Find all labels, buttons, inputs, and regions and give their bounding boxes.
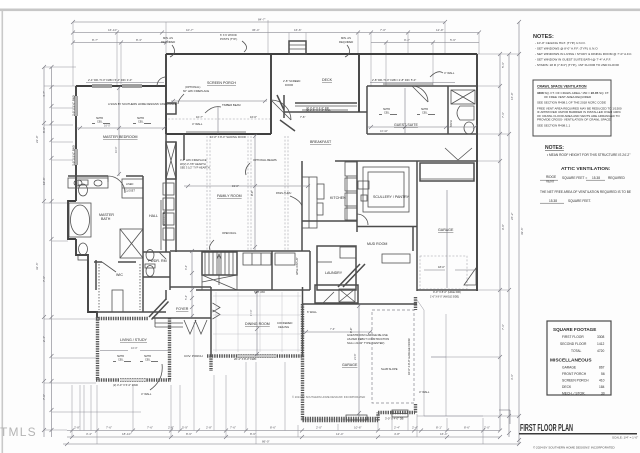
svg-text:MIN. AS: MIN. AS — [341, 36, 351, 40]
svg-text:36'-4": 36'-4" — [252, 28, 260, 32]
wall: breakfast west jog — [283, 95, 285, 118]
door: front entry triangles — [184, 320, 207, 334]
ext vertical bottom — [71, 385, 73, 437]
svg-text:RIDGE: RIDGE — [546, 175, 556, 179]
scullery ref box — [358, 181, 369, 189]
svg-text:5'-4": 5'-4" — [185, 295, 188, 300]
svg-text:15.38: 15.38 — [592, 176, 600, 180]
svg-text:18'-10": 18'-10" — [122, 432, 131, 436]
garage door dashed right — [420, 256, 467, 289]
fireplace box — [166, 142, 176, 179]
svg-text:CEIL: CEIL — [145, 359, 151, 362]
svg-text:7'-6": 7'-6" — [147, 426, 153, 430]
wall: top exterior porch/deck/guest — [166, 53, 477, 55]
svg-text:7'-6": 7'-6" — [106, 426, 112, 430]
svg-text:10'-6": 10'-6" — [354, 426, 362, 430]
svg-text:7'-6": 7'-6" — [501, 324, 505, 330]
svg-text:CRAWL SPACE VENTILATION: CRAWL SPACE VENTILATION — [537, 85, 587, 89]
svg-text:2'-8" SCREEN: 2'-8" SCREEN — [283, 79, 300, 83]
wall: powder east — [169, 252, 171, 290]
svg-text:BATH: BATH — [449, 120, 453, 127]
svg-text:8'-6": 8'-6" — [42, 127, 46, 133]
door: dining entry triangles — [213, 303, 221, 319]
svg-text:SEE SECTION R408.1.1: SEE SECTION R408.1.1 — [537, 123, 571, 127]
svg-text:26'-4" X 8'-0" FWD: 26'-4" X 8'-0" FWD — [234, 357, 256, 361]
svg-text:8'-3": 8'-3" — [136, 38, 142, 42]
svg-text:6' WALL: 6' WALL — [307, 310, 317, 314]
svg-text:W/(2) 3'-7/8" HEARTH: W/(2) 3'-7/8" HEARTH — [180, 162, 206, 166]
entry steps — [155, 322, 183, 324]
key drop cabinets — [243, 253, 271, 265]
svg-text:60" LWC FIREPLACE: 60" LWC FIREPLACE — [183, 89, 209, 93]
svg-text:4'-0" LWC FIREPLACE: 4'-0" LWC FIREPLACE — [180, 158, 207, 162]
svg-text:4" WALL: 4" WALL — [444, 71, 455, 75]
svg-text:© 2024 BY SOUTHERN HOME DESIGN: © 2024 BY SOUTHERN HOME DESIGNS' INCORPO… — [533, 446, 616, 450]
svg-text:CEIL: CEIL — [118, 359, 124, 362]
svg-text:16'-6": 16'-6" — [250, 115, 257, 119]
interior dim marks family — [184, 185, 310, 187]
svg-text:POSTS (TYP.): POSTS (TYP.) — [220, 37, 237, 41]
right dim col A — [499, 54, 501, 430]
svg-text:MECH. / STOR.: MECH. / STOR. — [562, 392, 585, 396]
interior dim line foyer — [191, 252, 193, 318]
svg-text:BATH: BATH — [101, 217, 111, 221]
interior dim porch — [217, 107, 219, 134]
scan left grey edge — [2, 11, 4, 453]
svg-text:DECK: DECK — [322, 78, 333, 82]
svg-text:LINEN: LINEN — [126, 183, 134, 186]
svg-text:REQUIRED: REQUIRED — [339, 40, 353, 44]
wall: dining east — [302, 287, 304, 356]
svg-text:GARAGE: GARAGE — [342, 363, 358, 367]
svg-text:3'-4": 3'-4" — [86, 432, 92, 436]
wall: powder south — [143, 276, 170, 278]
wall: mech/stor — [315, 285, 358, 303]
bottom dim row 3 — [63, 443, 519, 445]
svg-text:TMLS: TMLS — [0, 425, 37, 439]
svg-text:PWDR. RM: PWDR. RM — [148, 259, 167, 263]
wall: east exterior upper — [476, 54, 478, 291]
svg-text:7'-6": 7'-6" — [501, 112, 505, 118]
wall: wardrobe inner — [160, 200, 162, 250]
square footage box — [547, 321, 611, 396]
wall: kitchen south — [302, 220, 357, 222]
fan living 1 — [113, 355, 131, 362]
ext horizontal right — [477, 53, 519, 55]
svg-text:9'-0": 9'-0" — [250, 191, 254, 196]
fan MB 2 — [133, 117, 151, 124]
interior dim dining — [256, 290, 258, 356]
svg-text:SQUARE FOOTAGE: SQUARE FOOTAGE — [553, 327, 596, 332]
wall: porch front — [303, 419, 379, 422]
svg-text:3'-6": 3'-6" — [510, 374, 514, 380]
svg-text:SCREEN PORCH: SCREEN PORCH — [207, 81, 236, 85]
door arc: scullery to mud — [357, 214, 368, 225]
bracket dim bottom right — [499, 409, 510, 411]
svg-text:84'-7": 84'-7" — [258, 18, 266, 22]
wall: stair hall south — [196, 289, 310, 291]
svg-text:TOTAL: TOTAL — [571, 349, 581, 353]
svg-text:22'-0": 22'-0" — [35, 135, 39, 143]
wall: living/study north — [96, 317, 148, 320]
wall: step up to porch — [165, 54, 167, 86]
svg-text:LAUNDRY: LAUNDRY — [325, 271, 343, 275]
svg-text:8'-7": 8'-7" — [92, 38, 98, 42]
svg-text:PROVIDE CROSS- VENTILATION OF: PROVIDE CROSS- VENTILATION OF CRAWL SPAC… — [537, 118, 612, 122]
fixture: powder toilet — [146, 266, 154, 277]
svg-text:6' X 6' WOOD: 6' X 6' WOOD — [220, 33, 237, 37]
wall: garage east upper — [414, 297, 417, 310]
svg-text:5'-9": 5'-9" — [182, 426, 188, 430]
svg-text:10'-0": 10'-0" — [114, 146, 118, 153]
svg-text:AS-PER REBUT CONSTRUCTION: AS-PER REBUT CONSTRUCTION — [347, 337, 389, 341]
garage person door — [464, 268, 476, 285]
fan guest 2 — [417, 108, 435, 115]
svg-text:16'-4": 16'-4" — [440, 432, 448, 436]
svg-text:SLAB SLOPE: SLAB SLOPE — [381, 367, 398, 371]
svg-text:3'-0" X 4'-0" DB: 3'-0" X 4'-0" DB — [385, 417, 404, 421]
wardrobe shelves — [163, 183, 174, 195]
fixture: bath vanity — [68, 178, 108, 188]
wall: kitchen north / y161 — [335, 160, 477, 162]
svg-text:THE NET FREE AREA OF VENTILATI: THE NET FREE AREA OF VENTILATION REQUIRE… — [540, 190, 631, 194]
svg-text:2'-8": 2'-8" — [74, 426, 80, 430]
svg-text:2'-8": 2'-8" — [206, 426, 212, 430]
garage south window — [346, 415, 367, 420]
svg-text:COV. PORCH: COV. PORCH — [184, 354, 203, 358]
svg-text:39'-6": 39'-6" — [520, 227, 524, 235]
svg-text:8'-0": 8'-0" — [349, 328, 353, 333]
svg-text:7'-0": 7'-0" — [380, 28, 386, 32]
svg-text:- STAIRS: 18 R (7 3/4") (TYP: - STAIRS: 18 R (7 3/4") (TYP.), 1ST FLOO… — [535, 63, 620, 67]
svg-text:NOTES:: NOTES: — [533, 34, 554, 40]
steps SE — [392, 410, 408, 417]
wall: deck east — [358, 54, 360, 112]
wall: deck south rail — [295, 102, 357, 104]
wall: guest suite north inner — [367, 85, 477, 87]
svg-text:7'-6": 7'-6" — [42, 276, 46, 282]
svg-text:15.38: 15.38 — [549, 199, 557, 203]
svg-text:- 10'-0" CEILING HGT. (TYP.): - 10'-0" CEILING HGT. (TYP.) U.N.O. — [535, 41, 586, 45]
svg-text:3'-0" X 5'-0" FWD: 3'-0" X 5'-0" FWD — [72, 95, 76, 116]
door: screen door diag — [277, 95, 284, 110]
svg-text:9'-0" X 8'-0" (HIGH DR): 9'-0" X 8'-0" (HIGH DR) — [433, 290, 461, 294]
svg-text:19'-0": 19'-0" — [232, 184, 239, 188]
svg-text:3308: 3308 — [597, 335, 605, 339]
wall: guest bath west — [447, 86, 449, 134]
svg-text:SGA x 21/32" TYPE (CENTER): SGA x 21/32" TYPE (CENTER) — [347, 341, 384, 345]
svg-text:OPTIONAL BEAMS: OPTIONAL BEAMS — [253, 158, 277, 162]
interior dim mb — [76, 127, 166, 129]
svg-text:DOOR: DOOR — [285, 83, 293, 87]
svg-text:OF FREE VENT AREA REQUIRED: OF FREE VENT AREA REQUIRED — [544, 95, 592, 99]
svg-text:- SET WINDOW IN GUEST SUITE B: - SET WINDOW IN GUEST SUITE BATH @ 7'-4"… — [535, 58, 611, 62]
title: FIRST FLOOR PLAN — [519, 423, 638, 450]
kitchen counter boxes — [302, 177, 317, 228]
coffered ceiling grid — [213, 292, 301, 352]
fan guest 1 — [379, 108, 397, 115]
wall: master bedroom west — [75, 86, 77, 201]
crawl space ventilation box — [533, 80, 622, 136]
svg-text:(OPTIONAL): (OPTIONAL) — [185, 85, 200, 89]
wall: stair hall north — [170, 250, 310, 252]
wall: bottom garage south — [303, 417, 379, 420]
svg-text:GUEST SUITE: GUEST SUITE — [394, 123, 418, 127]
wall: dining south — [207, 354, 303, 357]
svg-text:2'-0": 2'-0" — [316, 426, 322, 430]
family room beam dashes — [206, 136, 208, 250]
svg-text:A SIGN BY SOUTHERN HOME DESIGN: A SIGN BY SOUTHERN HOME DESIGNS' ASSISTA… — [108, 102, 177, 106]
svg-text:16'-8" X 8'-0" SLIDING DOOR: 16'-8" X 8'-0" SLIDING DOOR — [210, 135, 246, 139]
wall: right garage south w/ door — [417, 289, 477, 291]
door arc: master bath — [108, 176, 125, 193]
door diag garage north — [322, 292, 334, 304]
svg-text:1412: 1412 — [597, 342, 605, 346]
svg-text:SCULLERY / PANTRY: SCULLERY / PANTRY — [373, 195, 410, 199]
wall: family south east portion — [309, 251, 311, 290]
svg-text:SCREEN PORCH: SCREEN PORCH — [562, 379, 589, 383]
svg-text:4'-8": 4'-8" — [394, 432, 400, 436]
bottom dim texts — [74, 426, 490, 444]
svg-text:10'-7": 10'-7" — [186, 28, 194, 32]
top dim texts — [92, 18, 456, 43]
svg-text:26'-2": 26'-2" — [510, 212, 514, 220]
svg-text:NOTES:: NOTES: — [545, 145, 564, 151]
svg-text:4" WALL: 4" WALL — [419, 390, 430, 394]
svg-text:KITCHEN: KITCHEN — [330, 196, 346, 200]
window: dining south — [237, 355, 276, 357]
mud hall diagonals — [338, 264, 365, 287]
svg-text:FAMILY ROOM: FAMILY ROOM — [217, 194, 242, 198]
svg-text:7'-6": 7'-6" — [330, 327, 335, 331]
svg-text:3'-4": 3'-4" — [185, 265, 188, 270]
svg-text:7'-6": 7'-6" — [230, 426, 236, 430]
svg-text:86'-0": 86'-0" — [262, 440, 270, 444]
wall: wic north — [94, 261, 102, 263]
svg-text:4" WALL: 4" WALL — [141, 392, 152, 396]
svg-text:FIRST FLOOR: FIRST FLOOR — [562, 335, 584, 339]
tick marks right col — [498, 20, 521, 442]
right dim texts (rotated) — [501, 62, 524, 380]
mech X box — [339, 289, 355, 302]
fixture: guest shower — [451, 90, 475, 104]
svg-text:16'-10": 16'-10" — [108, 28, 117, 32]
door arcs guest suite — [412, 86, 428, 102]
svg-text:GARAGE: GARAGE — [438, 228, 454, 232]
svg-text:PASS-THRU: PASS-THRU — [276, 191, 291, 195]
svg-text:ATTIC VENTILATION:: ATTIC VENTILATION: — [561, 166, 611, 172]
bottom dim row 2 — [67, 436, 500, 438]
svg-text:- SET WINDOWS IN LIVING / STU: - SET WINDOWS IN LIVING / STUDY & DINING… — [535, 52, 632, 56]
wall: living/study east — [168, 318, 171, 380]
top dim row B — [73, 32, 479, 34]
svg-text:16'-0" X 8'-0" GARAGE DOOR: 16'-0" X 8'-0" GARAGE DOOR — [407, 338, 411, 375]
svg-text:REQUIRED: REQUIRED — [608, 176, 626, 180]
svg-text:8'-1": 8'-1" — [436, 426, 442, 430]
fixture: guest tub — [457, 106, 474, 120]
svg-text:2'-4": 2'-4" — [42, 336, 46, 342]
wall: dining sw pillar — [209, 356, 212, 371]
svg-text:12'-9": 12'-9" — [436, 28, 444, 32]
svg-text:NET 3X0: NET 3X0 — [254, 290, 265, 294]
bottom dim row 1 — [67, 430, 500, 432]
wall: MB south / bath north — [68, 175, 108, 177]
svg-text:• MEAN ROOF HEIGHT FOR THIS S: • MEAN ROOF HEIGHT FOR THIS STRUCTURE IS… — [547, 153, 630, 157]
svg-text:16'-0": 16'-0" — [104, 124, 111, 128]
svg-text:CEIL: CEIL — [422, 112, 428, 115]
svg-text:7'-0": 7'-0" — [42, 394, 46, 400]
left dim col B — [51, 67, 53, 437]
svg-text:WARDROBE: WARDROBE — [162, 211, 166, 226]
wall: screen porch east — [270, 54, 272, 134]
svg-text:WIC: WIC — [116, 273, 123, 277]
interior dim guest — [367, 126, 477, 128]
svg-text:4'-7": 4'-7" — [42, 91, 46, 97]
svg-text:SEE 3 1/2" TYP HEARTH: SEE 3 1/2" TYP HEARTH — [180, 166, 210, 170]
svg-text:CLOSET: CLOSET — [125, 190, 135, 193]
door arc: MB NE — [157, 77, 166, 86]
fixture: master shower — [120, 229, 143, 258]
garage slab dashed — [372, 310, 414, 403]
svg-text:17'-0": 17'-0" — [249, 309, 253, 316]
wall: master bedroom north — [76, 85, 166, 87]
top dim row A — [73, 21, 445, 23]
svg-text:1'-6" X 8'-0" (ANGLE SIDE): 1'-6" X 8'-0" (ANGLE SIDE) — [430, 296, 459, 299]
svg-text:12'-4": 12'-4" — [336, 432, 344, 436]
stairs closet below — [202, 275, 237, 290]
svg-text:WINE DISPLAY: WINE DISPLAY — [296, 257, 299, 275]
door arc: porch to breakfast — [271, 100, 291, 120]
svg-text:867: 867 — [599, 366, 605, 370]
porch mid dim dashes — [168, 118, 270, 120]
svg-text:CEIL: CEIL — [138, 121, 144, 124]
svg-text:SECOND FLOOR: SECOND FLOOR — [560, 342, 587, 346]
wall: breakfast north — [284, 111, 367, 113]
scan top grey band — [0, 9, 640, 12]
ext vertical top — [72, 22, 74, 86]
svg-text:4720: 4720 — [597, 349, 605, 353]
ext horizontal left — [44, 66, 76, 68]
svg-text:MISCELLANEOUS: MISCELLANEOUS — [550, 358, 592, 364]
interior dim garage bottom — [358, 304, 360, 417]
wall: guest suite west — [366, 86, 368, 134]
wall: kitchen west counters — [301, 161, 303, 251]
wall: bottom garage west — [301, 304, 304, 356]
scan top white strip — [0, 0, 640, 9]
svg-text:18'-0": 18'-0" — [438, 265, 445, 269]
laundry machines — [340, 247, 356, 258]
wall: laundry box — [317, 246, 356, 290]
fan MB 1 — [92, 117, 110, 124]
svg-text:32'-6": 32'-6" — [35, 262, 39, 270]
svg-text:8'-6": 8'-6" — [464, 426, 470, 430]
svg-text:SQUARE FEET =: SQUARE FEET = — [562, 176, 587, 180]
svg-text:DINING ROOM: DINING ROOM — [245, 322, 270, 326]
wall: wic west — [95, 260, 97, 290]
svg-text:SQUARE FEET.: SQUARE FEET. — [568, 199, 591, 203]
wall: garage step front — [378, 411, 415, 414]
svg-text:MUD ROOM: MUD ROOM — [367, 242, 387, 246]
right dim col B — [508, 54, 510, 437]
kitchen tall cabinets — [345, 162, 357, 176]
diagonal: breakfast closet — [280, 120, 295, 131]
wall: hall east wardrobe — [165, 134, 167, 252]
wall: kitchen east — [356, 161, 358, 232]
svg-text:2'-8" DR / 5'-0" FWD / 2'-8" D: 2'-8" DR / 5'-0" FWD / 2'-8" DR / 5'-0" — [372, 78, 416, 82]
wall: tub nook — [68, 201, 76, 239]
svg-text:GARAGE: GARAGE — [562, 366, 577, 370]
svg-text:8'-6": 8'-6" — [250, 432, 256, 436]
wall: bath hall jog — [143, 251, 170, 253]
svg-text:56: 56 — [601, 372, 605, 376]
svg-text:MASTER BEDROOM: MASTER BEDROOM — [103, 135, 138, 139]
wine cabinets — [275, 253, 295, 265]
svg-text:5'-6": 5'-6" — [501, 62, 505, 68]
svg-text:SCALE: 1/4" = 1'-0": SCALE: 1/4" = 1'-0" — [612, 436, 638, 440]
wall: bath/closet spine — [142, 176, 144, 312]
left dim texts (rotated) — [35, 91, 46, 400]
left dim col A — [43, 67, 45, 437]
svg-text:GUESTROOM GARAGE RE-USE: GUESTROOM GARAGE RE-USE — [347, 333, 388, 337]
fixture: toilet lower — [79, 243, 88, 255]
svg-text:(2) 3'-0" X 5'-0" FWD: (2) 3'-0" X 5'-0" FWD — [113, 383, 138, 387]
top dim row C — [73, 42, 166, 44]
garage doors diagonals at top — [445, 148, 472, 160]
wall: right garage west — [416, 161, 418, 291]
wall: screen porch south sliding door — [166, 133, 271, 135]
svg-text:CEIL: CEIL — [384, 112, 390, 115]
stairs treads — [205, 252, 233, 275]
fixture: powder sink — [146, 250, 154, 261]
wall: scullery south — [357, 226, 417, 228]
stairs UP arrow — [218, 256, 220, 285]
svg-text:BREAKFAST: BREAKFAST — [310, 140, 332, 144]
garage storage north — [420, 163, 474, 181]
porch dim line — [171, 100, 267, 102]
porch west box — [166, 103, 176, 114]
wall: key drop east — [271, 251, 273, 290]
linen closet lines — [122, 179, 143, 198]
svg-text:8'-6": 8'-6" — [186, 432, 192, 436]
wall: master bedroom east — [165, 86, 167, 134]
svg-text:7'-6": 7'-6" — [300, 115, 305, 119]
svg-text:2'-4": 2'-4" — [394, 426, 400, 430]
driveway outline — [417, 300, 483, 416]
wall: foyer north — [170, 286, 211, 288]
svg-text:3'-0" X 5'-0" FWD: 3'-0" X 5'-0" FWD — [72, 145, 76, 166]
fixture: toilet upper — [79, 184, 88, 196]
notes 2 + attic ventilation — [540, 145, 631, 203]
window: MB north — [92, 85, 112, 87]
wall: entry south — [152, 317, 211, 319]
svg-text:410: 410 — [599, 379, 605, 383]
window: MB west 2 — [75, 149, 77, 165]
svg-text:10'-7": 10'-7" — [196, 115, 203, 119]
wall: garage east lower — [414, 404, 417, 413]
svg-text:FIRST FLOOR PLAN: FIRST FLOOR PLAN — [520, 423, 573, 434]
fan living 2 — [140, 355, 158, 362]
wall: living/study south — [96, 378, 171, 381]
wall: wic south — [96, 311, 166, 313]
wall: dining west — [210, 287, 212, 356]
svg-text:9'-8": 9'-8" — [501, 224, 505, 230]
wall: living/study diagonal to foyer — [149, 299, 166, 317]
tick marks top — [71, 20, 481, 45]
svg-text:16'-0": 16'-0" — [510, 92, 514, 100]
tick marks left col — [42, 65, 54, 432]
svg-text:© 2024 BY SOUTHERN HOME DESIGN: © 2024 BY SOUTHERN HOME DESIGNS' INCORPO… — [292, 395, 365, 399]
svg-text:CEIL: CEIL — [97, 121, 103, 124]
